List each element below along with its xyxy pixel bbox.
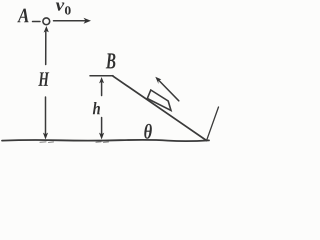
ground hatch ticks	[40, 141, 109, 144]
arrow up the incline (above block)	[158, 80, 179, 101]
tick at B (top of h)	[90, 75, 113, 77]
label theta	[144, 124, 152, 139]
dimension line h (vertical, double arrow)	[99, 77, 104, 83]
ball at A (small circle)	[43, 18, 50, 25]
velocity v0 arrow	[54, 20, 89, 22]
dash between A and ball	[33, 21, 41, 23]
block on incline (parallelogram)	[147, 90, 171, 111]
steep line at right (edge)	[207, 107, 219, 141]
label A	[17, 9, 28, 23]
label v0	[56, 2, 71, 14]
label h	[93, 102, 100, 114]
ground line	[2, 140, 209, 141]
incline surface	[113, 76, 207, 141]
label B	[106, 53, 116, 68]
dimension line H (vertical, double arrow)	[44, 26, 49, 33]
label H	[38, 72, 49, 85]
